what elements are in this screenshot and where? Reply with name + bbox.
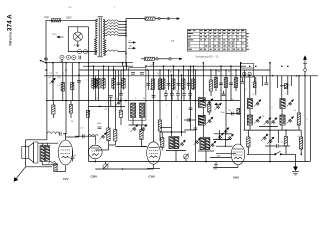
wire comb2dn 4 <box>183 95 185 100</box>
svg-text:0,1: 0,1 <box>95 98 98 100</box>
wire comb drop 1 <box>163 66 165 90</box>
capacitor C23 mid cap a <box>189 108 193 110</box>
wire right drop r2 <box>265 76 267 83</box>
capacitor C12 lcomb C6 <box>117 83 121 85</box>
node bus j3 <box>113 69 115 71</box>
wire comb extra <box>147 70 149 90</box>
svg-text:50: 50 <box>143 98 145 100</box>
wire V4 bias <box>210 157 231 159</box>
node tap 4 <box>125 29 127 31</box>
wire V3 col b2 <box>159 131 161 141</box>
potentiometer hum <box>49 162 57 164</box>
wire mid link <box>184 129 196 131</box>
node bus junction dots <box>45 62 306 131</box>
wire rcomb extra <box>223 91 225 94</box>
wire right drop r3 <box>277 76 279 88</box>
wire left drop 1 <box>46 63 48 134</box>
wire left drop 6 <box>78 63 80 137</box>
node comb2 178.5 <box>178 69 180 71</box>
svg-text:0,2: 0,2 <box>228 71 230 73</box>
node v2 mid <box>99 106 101 108</box>
wire right drop r4 <box>290 76 292 86</box>
wire rt2 col a <box>281 76 283 99</box>
node comb2 188.5 <box>188 69 190 71</box>
svg-text:6: 6 <box>250 142 251 144</box>
wire lcomb drop 2 <box>98 70 100 90</box>
antenna symbol <box>303 56 307 64</box>
svg-text:5000: 5000 <box>97 123 101 125</box>
trimmer capacitor CT5 osc trim B <box>140 125 148 133</box>
wire tap 5 to rail <box>118 32 126 34</box>
wire bus 4 <box>44 75 318 77</box>
wire v2 mid rail <box>89 105 126 107</box>
resistor R10 left R f <box>69 105 72 114</box>
wire if1 gnd <box>175 151 177 162</box>
wire det link <box>265 145 277 147</box>
node gnd d <box>269 161 271 163</box>
resistor R30 det R small <box>237 108 240 114</box>
svg-text:0,5: 0,5 <box>58 85 60 87</box>
svg-text:2: 2 <box>272 107 273 109</box>
coil L3 IFT1 coil a <box>169 137 174 149</box>
tube V3 pentode <box>147 142 161 167</box>
svg-text:50: 50 <box>150 89 152 91</box>
svg-text:50: 50 <box>116 99 118 101</box>
wire V3 gnd link <box>147 168 160 170</box>
wire mid h y127 <box>160 127 172 129</box>
lamp scale A <box>60 55 64 59</box>
wire comb2 5 <box>189 90 191 94</box>
trimmer capacitor CT2 v2 trim <box>116 100 122 106</box>
wire rcomb drop 4 <box>230 66 232 91</box>
resistor R6 left R a <box>61 83 64 92</box>
resistor R8 left R d <box>94 80 97 87</box>
resistor tap dropper 4 <box>107 29 118 31</box>
svg-text:50: 50 <box>74 155 76 157</box>
svg-text:0,1: 0,1 <box>226 134 229 136</box>
speaker LS <box>22 142 38 163</box>
resistor R20 lcomb R2 <box>97 79 100 89</box>
wire bus 2b <box>146 65 246 67</box>
wire left e drop <box>53 101 55 105</box>
coil L9 RFT1 coil a <box>247 99 252 109</box>
coil L1 osc coil A <box>131 103 136 118</box>
wire rcomb drop 1 <box>215 70 217 91</box>
lamp dial 1 <box>77 50 81 54</box>
capacitor C8 V2 cathode cap <box>98 127 102 129</box>
coil L5 IFT2 coil top <box>198 98 205 108</box>
resistor R25 comb R3 <box>172 79 175 89</box>
svg-text:CBV: CBV <box>91 175 98 179</box>
wire lamps stub <box>61 59 63 62</box>
node comb 193.5 <box>193 65 195 67</box>
wire left horiz mid <box>66 136 80 138</box>
wire comb2 1 <box>165 90 167 94</box>
svg-text:4: 4 <box>163 127 164 129</box>
capacitor C22 comb C extra <box>146 84 150 86</box>
wire bus B+ top <box>44 62 133 64</box>
svg-text:0,5: 0,5 <box>102 79 104 81</box>
wire tap 1 <box>105 21 107 23</box>
wire lcomb gnd a <box>98 90 100 101</box>
coil L8 OSC2 coil b <box>205 138 210 150</box>
capacitor C31 af cap <box>60 132 62 136</box>
wire V2 down b <box>114 141 116 145</box>
resistor R14 V2 load Rb <box>114 130 117 142</box>
wire v2 top cap dn <box>110 97 112 106</box>
wire v4 left <box>216 145 233 147</box>
resistor R29 IFT2 damping R <box>208 105 211 113</box>
capacitor C9 osc pad cap <box>131 73 135 75</box>
wire right bus low <box>244 129 302 131</box>
wire spk bottom <box>26 166 52 168</box>
svg-text:0,1: 0,1 <box>120 98 123 100</box>
wire osc B down <box>141 118 143 126</box>
svg-text:-7BV: -7BV <box>216 156 221 158</box>
wire af link2 <box>63 133 66 135</box>
ground tick mid <box>214 162 218 167</box>
node tap 6 <box>125 35 127 37</box>
trimmer capacitor CT9 OSC2 trim <box>209 141 216 148</box>
wire comb drop 3 <box>173 66 175 90</box>
resistor R3 bus fuse <box>145 57 155 60</box>
wire left drop 7 <box>95 76 97 101</box>
resistor R24 comb R1 <box>162 79 165 89</box>
wire left drop 4 <box>65 63 67 134</box>
wire rectifier left drop <box>67 27 69 52</box>
wire mid v244 <box>244 70 246 130</box>
resistor R2 HT fuse <box>145 17 155 20</box>
trimmer capacitor CT6 IFT1 trim <box>179 140 186 147</box>
wire V2 column <box>88 63 90 162</box>
wire right cap a <box>241 78 243 82</box>
wire mid h y120 <box>184 119 196 121</box>
wire rt1 mid <box>249 109 251 116</box>
svg-text:1: 1 <box>63 73 64 75</box>
wire ant stub2 <box>41 61 45 63</box>
wire V3 grid link <box>142 146 147 148</box>
node comb2 168.5 <box>168 69 170 71</box>
tube V1 rectifier <box>73 27 82 46</box>
trimmer capacitor CT21 mix trim c <box>223 128 230 135</box>
trimmer capacitor CT18 right trim low2 <box>267 137 274 144</box>
capacitor C27 rcomb C extra <box>222 94 226 96</box>
wire iftr dn <box>208 112 210 115</box>
wire mains left vertical <box>45 20 47 62</box>
node left a <box>65 62 67 64</box>
capacitor C30 mid coupling cap <box>188 118 190 122</box>
resistor tap dropper 2 <box>107 23 118 25</box>
transformer T1 secondary winding <box>103 19 106 56</box>
svg-text:2: 2 <box>191 126 192 128</box>
svg-text:+10: +10 <box>104 108 107 110</box>
wire left f drop <box>70 101 72 105</box>
capacitor C28 V4 cap left <box>232 112 234 116</box>
node avc c <box>125 100 127 102</box>
wire bus 3 <box>79 69 270 71</box>
node avc b <box>88 100 90 102</box>
capacitor C25 rcomb C2 <box>219 83 223 85</box>
node rcomb 236 <box>235 69 237 71</box>
svg-text:50: 50 <box>56 73 58 75</box>
lamp scale B <box>66 55 70 59</box>
wire if2 gnd <box>205 151 207 162</box>
svg-text:50: 50 <box>232 99 234 101</box>
trimmer capacitor CT19 mix trim a <box>194 138 201 145</box>
ground arrow left <box>14 167 26 182</box>
capacitor C2 right cap r2 <box>264 83 268 85</box>
trimmer capacitor CT11 RFT1 trim a <box>254 100 261 107</box>
wire lcomb drop 7 <box>123 66 125 89</box>
node rectifier cathode <box>77 45 79 47</box>
tube V4 pentode <box>231 144 245 168</box>
wire af line <box>26 139 47 141</box>
capacitor C32 V5 bypass cap <box>71 157 75 159</box>
wire osc A down <box>132 118 134 126</box>
wire if1 col b <box>181 75 183 136</box>
node V2 top <box>88 62 90 64</box>
svg-text:5: 5 <box>177 117 178 119</box>
svg-text:0,1: 0,1 <box>157 73 159 75</box>
node left b <box>78 62 80 64</box>
svg-text:6: 6 <box>60 141 61 143</box>
node tap 2 <box>125 24 127 26</box>
wire rcomb gnd a <box>220 91 222 101</box>
wire antenna down <box>304 71 306 161</box>
wire V2 right join <box>109 144 116 146</box>
wire agc drop <box>210 70 212 80</box>
capacitor C10 osc pad cap2 <box>140 73 144 75</box>
node V3 top <box>153 62 155 64</box>
trimmer capacitor CT4 osc trim A <box>131 125 139 133</box>
resistor R32 rcomb R3 <box>224 78 227 88</box>
wire comb drop 4 <box>178 70 180 90</box>
trimmer capacitor CT8 IFT2 trim bottom <box>206 117 213 124</box>
svg-text:1: 1 <box>307 119 308 121</box>
node bus j4 <box>123 69 125 71</box>
wire screen col <box>120 70 122 110</box>
wire spk col <box>25 140 27 167</box>
capacitor C6 v2 top cap <box>109 96 113 98</box>
svg-text:2: 2 <box>166 105 167 107</box>
resistor R19 lcomb R1 <box>92 79 95 89</box>
svg-text:30: 30 <box>262 116 264 118</box>
node bus link a <box>122 62 124 64</box>
wire heater link <box>95 168 153 170</box>
wire heater row <box>68 51 97 53</box>
node right a <box>269 62 271 64</box>
wire right drop r1 <box>262 76 264 86</box>
wire mid col b <box>195 70 197 162</box>
wire V2 to V3 <box>115 146 146 148</box>
trimmer capacitor CT22 mix trim d <box>227 134 234 141</box>
wire if2 base <box>198 150 214 152</box>
wire right stack dn <box>300 149 302 154</box>
node rcomb 226 <box>225 69 227 71</box>
svg-text:7: 7 <box>302 147 303 149</box>
wire v5 bypass2 <box>72 159 74 162</box>
wire left drop 5 <box>71 63 73 101</box>
resistor R7 left R b <box>71 83 74 90</box>
coil L10 RFT1 coil b <box>247 115 252 125</box>
resistor R26 comb R5 <box>182 79 185 89</box>
wire long right a <box>269 63 271 162</box>
wire ot drop b <box>46 143 48 145</box>
svg-text:a: a <box>206 93 207 95</box>
capacitor C20 comb C24 <box>182 94 186 96</box>
wire tap 5 <box>105 32 107 34</box>
svg-text:a: a <box>118 63 119 65</box>
table tube data grid <box>188 29 247 51</box>
resistor R1 mains fuse <box>52 19 61 22</box>
wire right stack up <box>300 130 302 137</box>
svg-text:50m: 50m <box>221 112 225 114</box>
resistor R36 right R low <box>284 137 287 147</box>
wire V2 bottom <box>95 149 108 151</box>
wire right low col <box>285 130 287 136</box>
svg-text:1: 1 <box>114 7 115 9</box>
wire comb2 2 <box>171 90 173 94</box>
wire lcomb gnd b <box>118 90 120 101</box>
resistor tap dropper 6 <box>107 34 118 36</box>
trimmer capacitor CT12 RFT1 trim b <box>254 117 261 124</box>
wire V5 grid <box>65 134 67 140</box>
wire comb2 3 <box>177 90 179 94</box>
wire if2 mid <box>202 107 204 115</box>
wire rt1 col a <box>249 77 251 99</box>
resistor R37 right R col stack <box>299 137 302 149</box>
connector box phono <box>240 64 254 78</box>
wire lcomb extra <box>120 90 122 94</box>
wire V3 col a <box>153 63 155 142</box>
wire ot bottom <box>41 162 43 165</box>
wire bus link b <box>126 63 128 70</box>
wire rectifier right drop <box>88 27 90 63</box>
resistor R22 lcomb R5 <box>112 79 115 89</box>
wire v5 bypass <box>72 150 74 157</box>
wire tap 4 to rail <box>118 29 126 31</box>
wire lcomb drop 5 <box>113 66 115 89</box>
capacitor C26 rcomb C4 <box>229 83 233 85</box>
resistor tap dropper 1 <box>107 20 118 22</box>
trimmer capacitor CT13 band trim a <box>264 118 272 126</box>
svg-text:u.W.: u.W. <box>151 64 155 66</box>
wire bus 2 <box>83 65 133 67</box>
resistor R16 V3 Rb <box>158 79 161 90</box>
wire lcomb drop 1 <box>93 66 95 89</box>
capacitor C7 af coupling cap <box>83 134 85 138</box>
wire V2 right col a <box>108 66 110 128</box>
wire band link <box>259 126 278 128</box>
wire comb2dn 3 <box>177 95 179 100</box>
resistor R34 agc R <box>209 80 212 91</box>
coil L14 output transformer secondary <box>45 146 49 162</box>
node comb 173.5 <box>173 65 175 67</box>
wire right col b2 <box>298 125 300 130</box>
svg-text:25: 25 <box>164 96 166 98</box>
coil L4 IFT1 coil b <box>174 137 179 149</box>
jack terminal 3 <box>156 58 159 61</box>
wire V4 cath <box>213 167 238 169</box>
trimmer capacitor CT14 band trim b <box>270 118 278 126</box>
svg-text:6: 6 <box>289 85 290 87</box>
wire antenna down a <box>304 64 306 69</box>
resistor heater dropper <box>107 50 118 52</box>
wire tap 6 to rail <box>118 35 126 37</box>
resistor R27 comb R7 <box>192 79 195 89</box>
wire mid v226 <box>225 91 227 130</box>
wire meter line <box>154 58 155 60</box>
trimmer capacitor CT7 IFT2 trim top <box>206 99 213 106</box>
lamp dial 2 <box>83 50 87 54</box>
wire agc drop2 <box>210 91 212 96</box>
wire bus link a <box>122 63 124 66</box>
resistor R12 V2 screen R <box>119 110 122 117</box>
wire rt2 col b <box>287 76 289 95</box>
wire comb drop 2 <box>168 70 170 90</box>
coil L12 RFT2 coil b <box>280 115 285 125</box>
coil L13 output transformer primary <box>40 146 44 162</box>
wire comb2dn 2 <box>171 95 173 100</box>
resistor R15 V3 Ra <box>151 79 154 90</box>
wire HT feed <box>126 18 145 20</box>
wire right col b <box>298 76 300 113</box>
node tap 1 <box>125 21 127 23</box>
wire gnd bus <box>89 161 311 163</box>
node rcomb 221 <box>220 65 222 67</box>
svg-text:4: 4 <box>253 94 254 96</box>
wire V5 cath link <box>56 171 66 173</box>
wire if2 down <box>202 124 204 137</box>
wire left f dn <box>70 113 72 118</box>
wire V3 col b <box>159 70 161 120</box>
shield box oscillator coils <box>129 68 146 121</box>
wire comb drop 6 <box>188 70 190 90</box>
wire jack1-jack2 <box>160 18 167 20</box>
node right stack <box>300 154 302 156</box>
svg-text:47a: 47a <box>69 7 72 9</box>
wire V2 down a <box>108 141 110 151</box>
wire tone stub <box>185 159 187 162</box>
wire rt2 down <box>281 125 283 130</box>
wire V3 cathode <box>153 167 155 169</box>
wire mixer R up <box>248 130 250 137</box>
node bus j1 <box>93 65 95 67</box>
wire if1 col a <box>171 75 173 136</box>
node arrow agc <box>215 103 221 105</box>
resistor R17 V3 Rc <box>158 120 161 131</box>
trimmer capacitor CT10 mid trim <box>215 103 222 110</box>
wire det load up <box>161 132 163 138</box>
wire lcomb drop 3 <box>103 66 105 89</box>
node osc top <box>145 65 147 67</box>
coil L7 OSC2 coil a <box>200 138 205 150</box>
svg-text:CAV: CAV <box>149 175 156 179</box>
svg-text:50: 50 <box>229 110 231 112</box>
wire V4 col <box>240 63 242 145</box>
wire rectifier anode top <box>68 26 88 28</box>
resistor R31 rcomb R1 <box>214 78 217 88</box>
node B+ arrow <box>57 36 64 38</box>
coil L2 osc coil B <box>140 103 145 118</box>
capacitor C11 V3 Ca <box>152 96 156 98</box>
wire rt2 mid <box>281 109 283 116</box>
wire comb2dn 1 <box>165 95 167 100</box>
potentiometer volume <box>103 164 109 170</box>
wire tap 6 <box>105 35 107 37</box>
wire left e dn <box>53 114 55 118</box>
wire V2 right col b <box>114 70 116 130</box>
